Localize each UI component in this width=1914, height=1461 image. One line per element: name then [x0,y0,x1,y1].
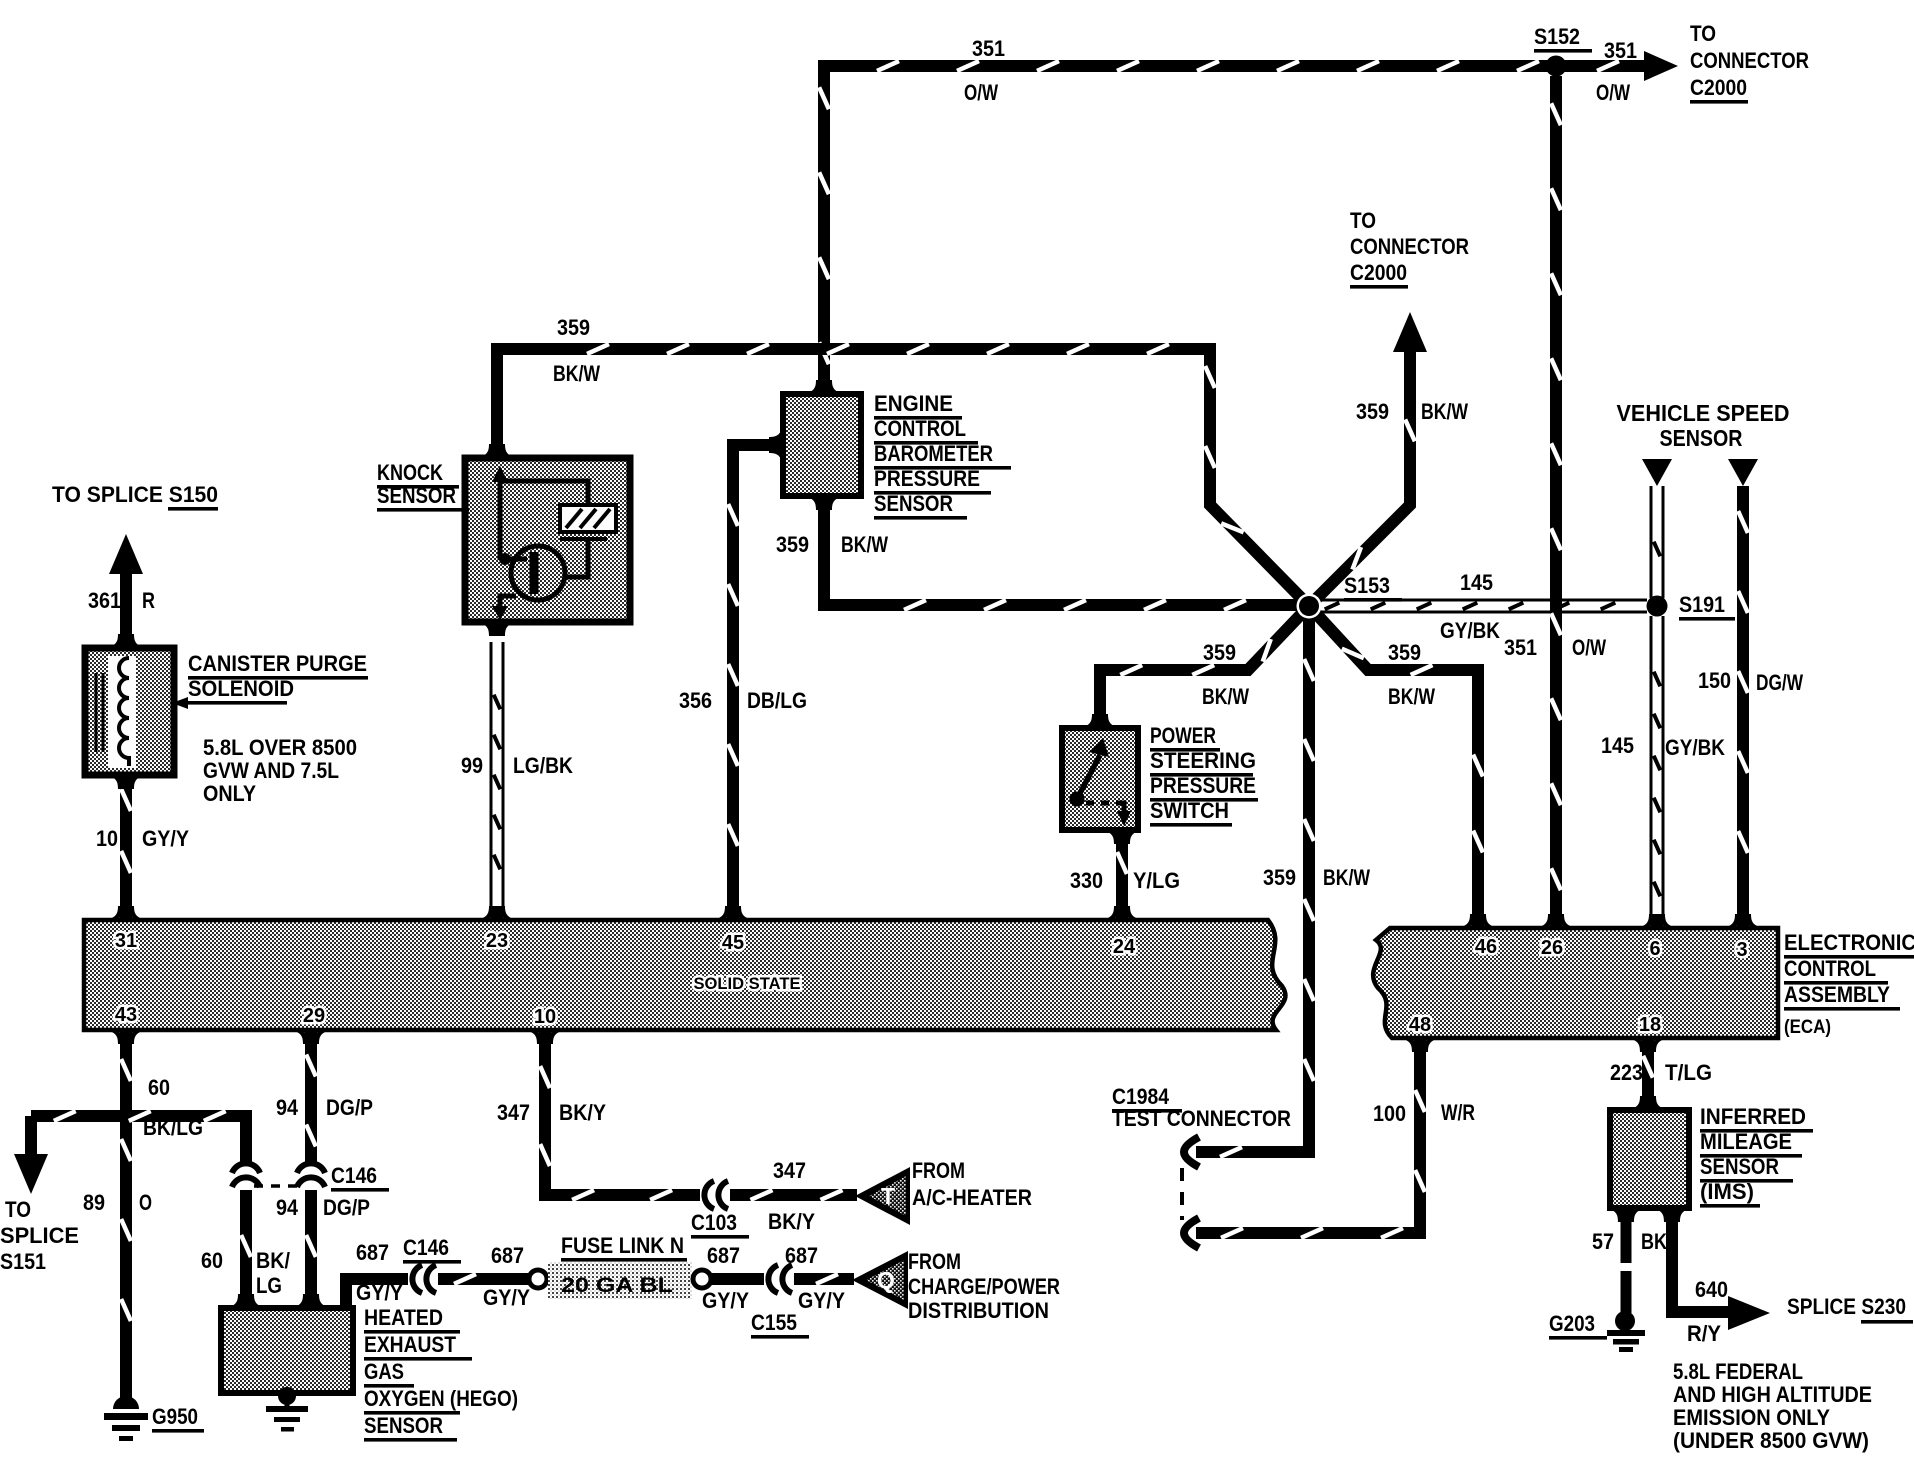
wire 359 BK/W engine control barometer pressure sensor lead to splice S153 [824,500,1300,610]
canister purge solenoid [85,634,174,789]
label 640 R/Y [1687,1277,1728,1346]
svg-text:GAS: GAS [364,1359,404,1384]
svg-text:CONNECTOR: CONNECTOR [1690,48,1809,73]
svg-text:(ECA): (ECA) [1784,1017,1831,1038]
connector bell at ECA pin 24 [1103,906,1141,920]
label 687 GY/Y (second) [483,1243,530,1310]
label 359 BK/W (S153 drop) [1263,865,1370,890]
svg-text:351: 351 [1504,635,1537,660]
label 145 GY/BK (S191 drop) [1601,733,1725,760]
wire 351 O/W from splice S152 down to ECA pin 26 [1551,76,1561,924]
dashed link of test connector C1984 [1180,1168,1184,1220]
wire 223 T/LG from ECA pin 18 to inferred mileage sensor [1643,1042,1653,1104]
wire 94 DG/P from connector C146 to HEGO sensor [306,1190,316,1304]
wire 640 R/Y from IMS to splice S230 [1672,1214,1732,1312]
svg-text:S152: S152 [1534,24,1580,49]
label 356 DB/LG [679,688,807,713]
fuse link N body 20 GA BL [548,1262,692,1299]
label 223 T/LG [1610,1060,1712,1085]
svg-text:SWITCH: SWITCH [1150,798,1229,823]
connector bell at ECA pin 45 [714,906,752,920]
vehicle speed sensor lead triangle (150 DG/W) [1728,459,1758,486]
svg-text:BK/Y: BK/Y [559,1100,606,1125]
svg-text:(IMS): (IMS) [1700,1179,1754,1204]
svg-text:EXHAUST: EXHAUST [364,1332,456,1357]
ground G950 [104,1396,148,1441]
svg-text:ELECTRONIC: ELECTRONIC [1784,930,1914,955]
svg-text:DB/LG: DB/LG [747,688,807,713]
svg-text:GY/BK: GY/BK [1665,735,1725,760]
label 5.8L FEDERAL AND HIGH ALTITUDE EMISSION ONLY (UNDER 8500 GVW) [1673,1359,1872,1453]
svg-text:INFERRED: INFERRED [1700,1104,1806,1129]
svg-text:EMISSION ONLY: EMISSION ONLY [1673,1405,1830,1430]
ECA pin 31 number [115,930,137,952]
svg-text:359: 359 [1203,640,1236,665]
splice S152 junction dot [1546,56,1567,77]
label S191 [1679,592,1735,621]
ECA pin 3 number [1736,939,1747,961]
label FROM CHARGE/POWER DISTRIBUTION [908,1249,1060,1323]
svg-text:BK/W: BK/W [1202,684,1249,709]
svg-text:SENSOR: SENSOR [874,491,953,516]
splice S191 junction dot [1647,596,1668,617]
wire 359 BK/W from splice S153 to ECA pin 46 [1309,606,1483,916]
wire 89 O from ECA pin 43 to ground G950 [121,1034,131,1408]
wire 359 BK/W from splice S153 up to connector C2000 arrow [1309,346,1415,606]
svg-text:BK/W: BK/W [1388,684,1435,709]
wire 330 Y/LG power steering pressure switch to ECA pin 24 [1117,836,1127,916]
svg-text:347: 347 [497,1100,530,1125]
wire 347 BK/Y from ECA pin 10 to connector C103 [540,1042,700,1200]
vehicle speed sensor lead triangle (145 GY/BK) [1642,459,1672,486]
label 361 R [88,588,155,613]
svg-text:AND HIGH ALTITUDE: AND HIGH ALTITUDE [1673,1382,1872,1407]
svg-text:PRESSURE: PRESSURE [1150,773,1256,798]
svg-text:OXYGEN (HEGO): OXYGEN (HEGO) [364,1386,518,1411]
svg-text:A/C-HEATER: A/C-HEATER [912,1185,1032,1210]
label 347 (right) [773,1158,806,1183]
connector bell at ECA pin 10 [526,1030,564,1044]
svg-text:687: 687 [707,1243,740,1268]
connector C146 in-line symbol on wire 687 [412,1265,436,1293]
label S152 [1534,24,1592,53]
svg-text:10: 10 [96,826,118,851]
svg-text:SPLICE S230: SPLICE S230 [1787,1294,1906,1319]
svg-text:Q: Q [877,1267,895,1293]
label 330 Y/LG [1070,868,1180,893]
svg-text:359: 359 [1356,399,1389,424]
svg-text:C103: C103 [691,1210,737,1235]
svg-text:KNOCK: KNOCK [377,460,443,485]
label 99 LG/BK [461,753,573,778]
connector bell at ECA pin 23 [478,906,516,920]
fork end of wire 100 W/R at test connector C1984 [1184,1218,1199,1248]
svg-text:LG: LG [256,1273,282,1298]
svg-text:359: 359 [1388,640,1421,665]
connector bell at ECA pin 18 [1629,1038,1667,1052]
label 351 O/W (right of S152) [1596,38,1637,105]
svg-text:O/W: O/W [1572,635,1606,660]
heated exhaust gas oxygen (HEGO) sensor [221,1294,353,1393]
svg-text:DG/P: DG/P [323,1195,370,1220]
svg-text:S153: S153 [1344,573,1390,598]
svg-text:347: 347 [773,1158,806,1183]
svg-text:TO SPLICE S150: TO SPLICE S150 [52,482,218,507]
dashed line joining connector C146 halves [254,1184,304,1188]
connector bell at ECA pin 43 [107,1030,145,1044]
svg-text:CONNECTOR: CONNECTOR [1350,234,1469,259]
svg-text:DISTRIBUTION: DISTRIBUTION [908,1298,1049,1323]
label KNOCK SENSOR [377,460,469,512]
label 94 DG/P (upper) [276,1095,373,1120]
svg-text:BK/: BK/ [256,1248,290,1273]
label TO CONNECTOR C2000 (top right) [1690,21,1809,104]
connector bell at ECA pin 26 [1537,914,1575,928]
connector bell at ECA pin 6 [1638,914,1676,928]
svg-text:687: 687 [491,1243,524,1268]
label C155 [751,1310,809,1339]
label TO SPLICE S151 [0,1197,79,1274]
svg-text:45: 45 [722,932,744,954]
wire 10 GY/Y canister purge solenoid to ECA pin 31 [121,772,131,916]
arrowhead of wire 640 R/Y to splice S230 [1728,1296,1770,1330]
label SOLID STATE [694,974,801,993]
svg-text:GY/Y: GY/Y [702,1288,749,1313]
svg-text:BK: BK [1641,1229,1667,1254]
svg-text:18: 18 [1639,1014,1661,1036]
label 359 BK/W (switch branch) [1202,640,1249,709]
wire 60 BK/LG from connector C146 to HEGO sensor [241,1190,251,1304]
svg-text:(UNDER 8500 GVW): (UNDER 8500 GVW) [1673,1428,1869,1453]
svg-text:TO: TO [1350,208,1376,233]
wire 356 DB/LG barometer sensor left lead to ECA pin 45 [728,445,779,916]
wire 687 GY/Y from connector C146 to fuse link N [438,1274,528,1284]
wire 347 BK/Y from connector C103 to A/C-heater triangle [730,1190,857,1200]
svg-text:31: 31 [115,930,137,952]
svg-text:145: 145 [1601,733,1634,758]
label HEATED EXHAUST GAS OXYGEN (HEGO) SENSOR [364,1305,518,1442]
svg-text:687: 687 [785,1243,818,1268]
svg-text:G950: G950 [152,1404,198,1429]
svg-text:FUSE LINK N: FUSE LINK N [561,1233,684,1258]
label 5.8L OVER 8500 GVW AND 7.5L ONLY [203,735,357,806]
wire 145 GY/BK vehicle speed sensor lead down to splice S191 [1654,486,1661,598]
arrowhead of wire 359 BK/W to connector C2000 [1393,312,1427,352]
wire 359 BK/W from splice S153 to power steering pressure switch [1100,606,1309,722]
label 687 GY/Y (fourth) [785,1243,845,1313]
ECA pin 46 number [1475,936,1497,958]
label 359 BK/W (to C2000 arrow) [1356,399,1468,424]
svg-text:Y/LG: Y/LG [1133,868,1180,893]
splice S153 junction dot [1297,594,1322,619]
wire 687 GY/Y from fuse link N to connector C155 [711,1273,764,1285]
svg-text:VEHICLE SPEED: VEHICLE SPEED [1617,400,1790,426]
svg-text:687: 687 [356,1240,389,1265]
svg-text:6: 6 [1649,938,1660,960]
label INFERRED MILEAGE SENSOR (IMS) [1700,1104,1813,1208]
connector C146 in-line symbol on wire 94 [297,1163,325,1187]
svg-text:O/W: O/W [964,80,998,105]
svg-text:C146: C146 [403,1235,449,1260]
off-page triangle T from A/C-heater [855,1167,910,1225]
label 347 BK/Y (vertical) [497,1100,606,1125]
label FROM A/C-HEATER [912,1158,1032,1210]
label G950 [152,1404,204,1433]
svg-text:TEST CONNECTOR: TEST CONNECTOR [1112,1106,1291,1131]
fork end of wire 359 BK/W at test connector C1984 [1184,1137,1199,1167]
svg-text:GY/BK: GY/BK [1440,618,1500,643]
label SPLICE S230 [1787,1294,1913,1324]
svg-text:361: 361 [88,588,121,613]
svg-text:GY/Y: GY/Y [483,1285,530,1310]
fuse link N right terminal ring [693,1270,711,1288]
svg-text:CONTROL: CONTROL [1784,956,1876,981]
label FUSE LINK N [561,1233,687,1262]
ECA pin 6 number [1649,938,1660,960]
arrowhead of wire 361 R to splice S150 [109,534,143,574]
wire 150 DG/W vehicle speed sensor to ECA pin 3 [1738,486,1748,924]
svg-text:BK/W: BK/W [1323,865,1370,890]
svg-text:SOLID STATE: SOLID STATE [694,974,801,993]
label 150 DG/W [1698,668,1803,695]
ECA pin 18 number [1639,1014,1661,1036]
label 57 BK [1592,1229,1667,1254]
svg-text:60: 60 [148,1075,170,1100]
wire 687 GY/Y from HEGO sensor to connector C146 [346,1279,408,1306]
connector bell at ECA pin 29 [292,1030,330,1044]
wire 687 GY/Y from connector C155 to charge/power distribution triangle [794,1274,854,1284]
svg-text:R/Y: R/Y [1687,1321,1721,1346]
svg-text:GY/Y: GY/Y [142,826,189,851]
label 89 O [83,1190,152,1215]
knock sensor [465,444,630,636]
svg-text:43: 43 [115,1004,137,1026]
label POWER STEERING PRESSURE SWITCH [1150,723,1258,827]
wire 57 BK from IMS to ground G203 (upper) [1621,1214,1632,1263]
wire 351 O/W vertical branch down to engine control barometer pressure sensor [819,60,829,390]
wire 100 W/R from test connector C1984 to ECA pin 48 [1196,1042,1425,1238]
svg-text:MILEAGE: MILEAGE [1700,1129,1792,1154]
svg-text:DG/P: DG/P [326,1095,373,1120]
ECA pin 48 number [1409,1014,1431,1036]
wire 359 BK/W from knock sensor along top to splice S153 [497,344,1309,606]
svg-text:BK/W: BK/W [553,361,600,386]
connector C155 in-line symbol [768,1265,792,1293]
svg-text:CONTROL: CONTROL [874,416,966,441]
wire 94 DG/P from ECA pin 29 to connector C146 [306,1034,316,1164]
svg-text:GVW AND 7.5L: GVW AND 7.5L [203,758,339,783]
svg-text:5.8L OVER 8500: 5.8L OVER 8500 [203,735,357,760]
electronic control assembly (ECA) left section with solid state label [84,920,1285,1030]
connector bell at ECA pin 3 [1724,914,1762,928]
svg-text:FROM: FROM [908,1249,961,1274]
label TO SPLICE S150 [52,482,218,511]
svg-text:S191: S191 [1679,592,1725,617]
svg-text:3: 3 [1736,939,1747,961]
svg-text:POWER: POWER [1150,723,1216,748]
wire 359 BK/W from splice S153 down to test connector C1984 [1196,606,1314,1157]
connector bell at ECA pin 48 [1401,1038,1439,1052]
svg-text:351: 351 [1604,38,1637,63]
label GY/BK (S153-S191) [1440,618,1500,643]
label C146 (687 wire) [403,1235,461,1264]
svg-text:SENSOR: SENSOR [377,483,456,508]
svg-text:O: O [139,1190,152,1215]
svg-text:SENSOR: SENSOR [1660,425,1743,451]
ground symbol at HEGO sensor [266,1387,308,1432]
label C146 (solid wires) [331,1163,389,1192]
ECA pin 23 number [486,930,508,952]
label 60 BK/LG (upper) [143,1075,203,1140]
label TO CONNECTOR C2000 (middle) [1350,208,1469,289]
svg-text:359: 359 [776,532,809,557]
svg-text:DG/W: DG/W [1756,670,1803,695]
label 687 GY/Y (third) [702,1243,749,1313]
label C103 [691,1210,749,1239]
svg-text:20 GA BL: 20 GA BL [561,1274,673,1297]
svg-text:TO: TO [1690,21,1716,46]
label 687 GY/Y (first) [356,1240,403,1305]
svg-text:CANISTER PURGE: CANISTER PURGE [188,651,367,676]
svg-text:94: 94 [276,1095,299,1120]
svg-text:ASSEMBLY: ASSEMBLY [1784,982,1890,1007]
svg-text:60: 60 [201,1248,223,1273]
ECA pin 43 number [115,1004,137,1026]
wire 60 BK/LG branch from pin 43 wire to splice S151 and HEGO sensor [31,1111,246,1164]
svg-text:SPLICE: SPLICE [0,1223,79,1248]
label 351 O/W (top run) [964,36,1005,105]
engine control barometer pressure sensor [769,380,861,510]
svg-text:FROM: FROM [912,1158,965,1183]
label G203 [1549,1311,1607,1340]
svg-text:ONLY: ONLY [203,781,256,806]
svg-text:ENGINE: ENGINE [874,391,953,416]
svg-text:100: 100 [1373,1101,1406,1126]
svg-text:640: 640 [1695,1277,1728,1302]
svg-text:C2000: C2000 [1690,75,1747,100]
svg-text:150: 150 [1698,668,1731,693]
svg-text:SENSOR: SENSOR [1700,1154,1779,1179]
svg-text:R: R [142,588,155,613]
svg-text:BK/W: BK/W [841,532,888,557]
label S153 [1344,573,1402,602]
label VEHICLE SPEED SENSOR [1617,400,1790,451]
svg-text:O/W: O/W [1596,80,1630,105]
label ELECTRONIC CONTROL ASSEMBLY (ECA) [1784,930,1914,1038]
label CANISTER PURGE SOLENOID [172,651,368,709]
label 100 W/R [1373,1100,1475,1126]
svg-text:TO: TO [5,1197,31,1222]
svg-text:G203: G203 [1549,1311,1595,1336]
label 359 BK/W (top horizontal) [553,315,600,386]
svg-text:T: T [881,1183,895,1209]
wire 99 LG/BK knock sensor to ECA pin 23 [494,642,501,917]
inferred mileage sensor (IMS) [1607,1096,1691,1222]
label 60 BK/LG (lower) [201,1248,290,1298]
svg-text:HEATED: HEATED [364,1305,443,1330]
svg-text:29: 29 [303,1005,325,1027]
label C1984 TEST CONNECTOR [1112,1084,1291,1131]
wire 361 R canister purge solenoid up to splice S150 [120,570,132,645]
svg-text:23: 23 [486,930,508,952]
svg-text:89: 89 [83,1190,105,1215]
svg-text:GY/Y: GY/Y [356,1280,403,1305]
label 145 (S153-S191) [1460,570,1493,595]
electronic control assembly (ECA) right section [1373,928,1778,1038]
svg-text:W/R: W/R [1441,1100,1475,1125]
connector C146 in-line symbol on wire 60 [232,1163,260,1187]
ECA pin 29 number [303,1005,325,1027]
svg-text:C155: C155 [751,1310,797,1335]
fuse link N left terminal ring [529,1270,547,1288]
label 359 BK/W (barometer lead) [776,532,888,557]
svg-text:10: 10 [534,1006,556,1028]
power steering pressure switch [1062,714,1141,844]
svg-text:BK/LG: BK/LG [143,1115,203,1140]
svg-text:145: 145 [1460,570,1493,595]
svg-text:STEERING: STEERING [1150,748,1256,773]
arrowhead of wire 351 O/W to connector C2000 [1644,51,1678,81]
svg-text:C2000: C2000 [1350,260,1407,285]
svg-text:26: 26 [1541,937,1563,959]
ECA pin 10 number [534,1006,556,1028]
svg-text:94: 94 [276,1195,299,1220]
svg-text:46: 46 [1475,936,1497,958]
svg-text:BK/Y: BK/Y [768,1209,815,1234]
wire 145 GY/BK from splice S191 to ECA pin 6 [1654,616,1661,925]
svg-text:356: 356 [679,688,712,713]
svg-text:BK/W: BK/W [1421,399,1468,424]
svg-text:223: 223 [1610,1060,1643,1085]
connector C103 in-line symbol [704,1181,728,1209]
svg-text:CHARGE/POWER: CHARGE/POWER [908,1274,1060,1299]
off-page triangle Q from charge/power distribution [852,1251,908,1309]
svg-text:359: 359 [1263,865,1296,890]
svg-text:LG/BK: LG/BK [513,753,573,778]
svg-text:359: 359 [557,315,590,340]
label 10 GY/Y [96,826,189,851]
ECA pin 26 number [1541,937,1563,959]
arrowhead of wire 60 BK/LG to splice S151 [14,1116,48,1194]
wire 145 GY/BK from splice S153 to splice S191 [1309,603,1647,610]
ECA pin 45 number [722,932,744,954]
svg-text:5.8L FEDERAL: 5.8L FEDERAL [1673,1359,1803,1384]
ECA pin 24 number [1113,936,1136,958]
svg-text:24: 24 [1113,936,1136,958]
svg-text:99: 99 [461,753,483,778]
svg-text:SOLENOID: SOLENOID [188,676,294,701]
label 94 DG/P (lower) [276,1195,370,1220]
svg-text:57: 57 [1592,1229,1614,1254]
ground G203 [1607,1311,1645,1352]
svg-text:BAROMETER: BAROMETER [874,441,993,466]
svg-text:351: 351 [972,36,1005,61]
label BK/Y (right) [768,1209,815,1234]
svg-text:S151: S151 [0,1249,46,1274]
svg-text:330: 330 [1070,868,1103,893]
label ENGINE CONTROL BAROMETER PRESSURE SENSOR [874,391,1011,520]
svg-text:PRESSURE: PRESSURE [874,466,980,491]
svg-text:SENSOR: SENSOR [364,1413,443,1438]
svg-text:C146: C146 [331,1163,377,1188]
wire 351 O/W top run from barometer sensor branch to splice S152 [824,61,1648,71]
svg-text:GY/Y: GY/Y [798,1288,845,1313]
label 351 O/W (S152 drop) [1504,635,1606,660]
wire 57 BK from IMS to ground G203 (lower) [1621,1271,1632,1313]
svg-text:48: 48 [1409,1014,1431,1036]
connector bell at ECA pin 31 [107,906,145,920]
svg-text:T/LG: T/LG [1665,1060,1712,1085]
